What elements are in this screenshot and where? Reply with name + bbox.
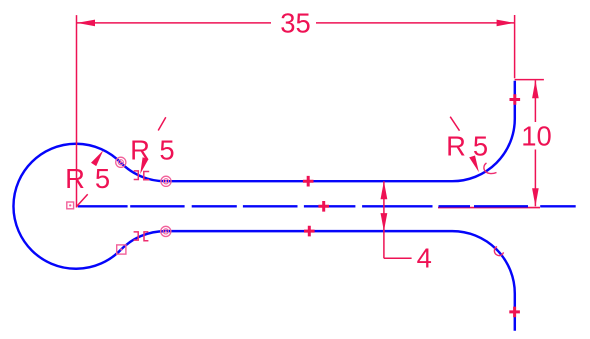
extension line bottom of dim 10 (crimson underlay on centerline) <box>438 207 540 209</box>
small hook mark near top-right fillet <box>484 163 497 174</box>
radius dim R5 middle: center stub <box>158 117 166 130</box>
radius dim R5 right: center stub <box>450 117 459 131</box>
point marker plus on top line <box>303 176 314 187</box>
svg-text:35: 35 <box>280 8 310 39</box>
dim 10 dimension line <box>534 80 536 122</box>
dim 4 arrow down <box>381 213 388 231</box>
dim 4 arrow up <box>381 181 388 199</box>
radius dim R5 middle: arrow <box>140 157 148 174</box>
svg-text:5: 5 <box>159 135 174 166</box>
dim 10 extension line top <box>515 79 544 81</box>
point marker plus on centerline <box>318 201 329 212</box>
svg-text:5: 5 <box>473 130 488 161</box>
small hook mark near bottom-right fillet <box>494 247 503 256</box>
dim 35 arrow left <box>77 20 95 27</box>
bracket marker pair on upper S-curve <box>134 171 150 180</box>
dim 4 leader <box>384 257 412 259</box>
tangency marker (double circle) on top line <box>161 176 171 186</box>
dim 35 arrow right <box>497 20 515 27</box>
dim 10 arrow bottom <box>532 188 539 206</box>
bracket marker pair on lower S-curve <box>134 232 149 241</box>
dim 35 extension line right <box>514 15 516 78</box>
point marker plus on top-right vertical <box>510 94 521 105</box>
svg-text:10: 10 <box>521 120 551 151</box>
square marker at circle center <box>67 202 74 209</box>
radius dim R5 right: arrow <box>469 156 479 173</box>
square marker on lower S-curve <box>117 245 126 254</box>
svg-text:4: 4 <box>417 243 432 274</box>
svg-text:R: R <box>130 135 150 166</box>
dim 4 dimension line <box>383 181 385 258</box>
svg-text:R: R <box>446 130 466 161</box>
point marker plus on bottom line <box>304 226 315 237</box>
tangency marker (double circle) on bottom line <box>161 226 171 236</box>
radius dim R5 left: arrow <box>91 150 103 166</box>
point marker plus on bottom-right vertical <box>509 307 520 318</box>
centerline (blue dash-dot) <box>78 205 576 207</box>
dim 10 arrow top <box>532 80 539 98</box>
radius dim R5 left: center stub <box>77 194 88 206</box>
dim 35 dimension line <box>77 22 271 24</box>
dim 35 extension line left <box>76 15 78 207</box>
part outline (blue): circle arc, fillets, slot lines <box>13 81 514 331</box>
tangency marker (double circle) on S-curve upper <box>116 157 126 167</box>
svg-text:5: 5 <box>95 163 110 194</box>
svg-text:R: R <box>65 163 85 194</box>
